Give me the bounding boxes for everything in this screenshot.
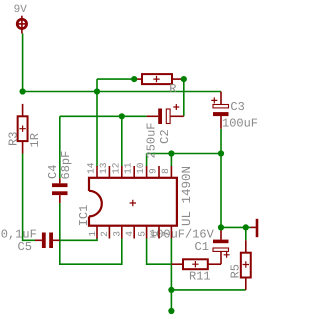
junction C1 top rail <box>218 224 224 230</box>
wire: pin14 vertical to R line <box>96 79 98 166</box>
svg-text:100uF: 100uF <box>222 116 258 130</box>
svg-text:3: 3 <box>112 231 123 237</box>
svg-text:C5: C5 <box>18 240 32 254</box>
wire: +9V bus horizontal <box>23 91 221 93</box>
junction pin12 C2 line <box>119 113 125 119</box>
wire: R left line <box>97 78 134 80</box>
svg-text:C2: C2 <box>158 129 172 143</box>
svg-text:13: 13 <box>98 162 109 174</box>
junction bottom stub end <box>168 308 174 314</box>
IC1 UL1490N body <box>88 178 177 226</box>
IC pin 8 <box>170 166 172 178</box>
IC pin 9 <box>158 166 160 178</box>
wire: R right down to C2 right <box>183 79 185 116</box>
junction pin14 bus <box>94 88 100 94</box>
svg-text:10: 10 <box>135 162 146 174</box>
wire: C4 top vertical <box>59 116 61 178</box>
junction R5 top rail <box>243 224 249 230</box>
wire: pin1 down left to C5 <box>60 239 97 241</box>
junction pin8 line <box>168 150 174 156</box>
svg-text:4: 4 <box>124 231 135 237</box>
wire: pin7 vertical down <box>170 239 172 312</box>
IC pin 5 <box>146 226 148 239</box>
supply bar symbol (right rail) <box>251 219 259 237</box>
svg-text:1: 1 <box>87 231 98 237</box>
IC pin 7 <box>170 226 172 239</box>
IC pin 11 <box>133 166 135 178</box>
junction pin7 bottom line <box>168 287 174 293</box>
wire: pin10 stub up <box>146 154 148 167</box>
IC pin 6 <box>158 226 160 239</box>
svg-text:C4: C4 <box>46 165 60 179</box>
resistor R5 <box>241 240 251 290</box>
svg-text:R11: R11 <box>189 270 211 284</box>
svg-text:C3: C3 <box>230 100 244 114</box>
svg-text:5: 5 <box>136 231 147 237</box>
IC pin 13 <box>108 166 110 178</box>
wire: C3 bottom down right rail <box>220 129 222 228</box>
svg-text:9: 9 <box>148 168 159 174</box>
IC pin 12 <box>121 166 123 178</box>
IC pin 1 <box>96 226 98 239</box>
junction C3 bottom rail <box>218 150 224 156</box>
svg-text:11: 11 <box>123 162 134 174</box>
junction R left node <box>131 76 137 82</box>
wire: C4 bottom to pin3 <box>60 203 122 264</box>
IC pin 14 <box>96 166 98 178</box>
svg-text:68pF: 68pF <box>59 151 73 180</box>
capacitor C2 (250uF) <box>147 104 184 124</box>
wire: pin5 down to R11 <box>147 239 172 265</box>
wire: 9V supply down to bus <box>22 34 24 92</box>
svg-text:IC1: IC1 <box>77 205 91 227</box>
resistor R11 <box>171 259 221 269</box>
wire: bottom line pin7 to R5 <box>171 289 245 291</box>
wire: C5 left up to R3 bottom <box>23 154 35 241</box>
svg-text:8: 8 <box>160 168 171 174</box>
capacitor C1 (100uF/16V) <box>213 227 230 264</box>
svg-text:R: R <box>169 82 176 96</box>
resistor R (top) <box>134 74 184 84</box>
svg-text:7: 7 <box>161 231 172 237</box>
capacitor C4 (68pF) <box>52 178 68 203</box>
junction R right node <box>181 76 187 82</box>
svg-text:9V: 9V <box>14 4 28 16</box>
svg-text:1R: 1R <box>28 133 42 147</box>
wire: pin10-pin8-C3 line <box>147 153 221 155</box>
supply +9V symbol <box>17 16 28 34</box>
wire: pin8 stub up <box>170 154 172 167</box>
IC pin 3 <box>121 226 123 239</box>
junction 9V bus <box>20 88 26 94</box>
wire: R5 top <box>245 227 247 240</box>
svg-text:12: 12 <box>110 162 121 174</box>
capacitor C3 (100uF) <box>211 92 228 129</box>
svg-text:UL 1490N: UL 1490N <box>180 166 194 226</box>
IC pin 4 <box>133 226 135 239</box>
capacitor C5 (0,1uF) <box>35 233 60 249</box>
resistor R3 <box>18 104 28 154</box>
svg-text:250uF: 250uF <box>144 122 158 158</box>
IC pin 2 <box>108 226 110 239</box>
svg-text:C1: C1 <box>195 240 209 254</box>
wire: C2 left line to C4 corner <box>60 115 147 117</box>
svg-text:14: 14 <box>86 162 97 174</box>
wire: pin12 vertical <box>121 116 123 166</box>
wire: right rail to supply bar <box>221 226 251 228</box>
svg-text:2: 2 <box>99 231 110 237</box>
svg-text:R5: R5 <box>228 264 242 278</box>
svg-text:6: 6 <box>149 231 160 237</box>
IC pin 10 <box>146 166 148 178</box>
svg-text:R3: R3 <box>7 132 21 146</box>
